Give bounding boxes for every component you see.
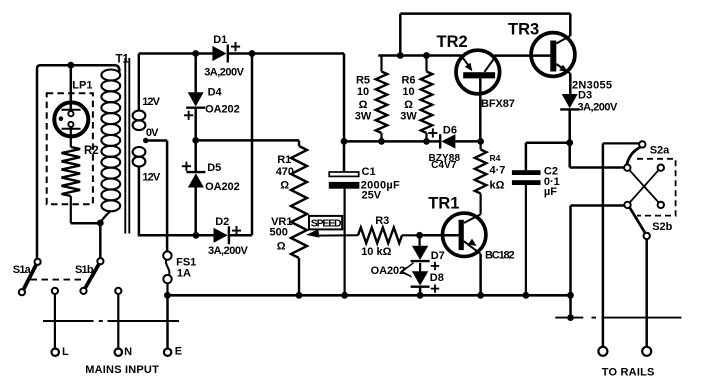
svg-text:S2b: S2b (652, 221, 672, 233)
wire: D1 cathode to C1 column (229, 52, 344, 55)
transformer T1 secondary winding with taps (133, 54, 161, 184)
svg-text:D4: D4 (208, 87, 223, 99)
wire: TR2 collector lead (479, 78, 482, 141)
svg-text:BC182: BC182 (485, 250, 515, 262)
svg-text:BFX87: BFX87 (481, 98, 515, 110)
node junction: R5 bottom (378, 138, 385, 145)
svg-text:3W: 3W (355, 111, 372, 123)
diode D3 (560, 90, 618, 114)
panel boundary line (mains side) (43, 320, 179, 322)
svg-text:D1: D1 (213, 34, 227, 46)
svg-text:D5: D5 (207, 162, 221, 174)
wire: top rail over TR2/TR3 (400, 14, 570, 56)
svg-text:S1b: S1b (75, 264, 94, 276)
svg-text:C4V7: C4V7 (431, 160, 457, 171)
svg-text:4·7: 4·7 (490, 165, 506, 177)
svg-text:Ω: Ω (404, 99, 413, 111)
VR1 wiper arrow (306, 229, 358, 238)
svg-text:10: 10 (402, 86, 414, 98)
svg-text:25V: 25V (362, 190, 382, 202)
svg-text:Ω: Ω (280, 180, 289, 192)
wire: lamp LP1 top lead (70, 65, 73, 110)
label: SPEED control box (309, 216, 342, 230)
wire: FS1 to E terminal (166, 295, 169, 348)
switch S2a (603, 141, 670, 171)
svg-text:10 kΩ: 10 kΩ (361, 246, 391, 258)
resistor R3 (358, 215, 420, 258)
svg-text:D3: D3 (578, 90, 592, 102)
node junction: lamp tap on top wire (67, 62, 74, 69)
node junction: C2 bottom on rail (523, 292, 530, 299)
svg-text:LP1: LP1 (72, 80, 92, 92)
svg-text:C1: C1 (362, 166, 376, 178)
label: TO RAILS (602, 367, 655, 379)
transistor TR3 (2N3055) (508, 20, 612, 91)
mechanical link S1a-S1b (31, 279, 85, 281)
svg-text:Ω: Ω (359, 99, 368, 111)
svg-text:kΩ: kΩ (490, 180, 505, 192)
wire: output node to S2a pole (570, 143, 625, 168)
node junction: rail end / S2b pole (567, 292, 574, 299)
terminal N riser (115, 288, 121, 348)
panel boundary line (rails side) (555, 317, 681, 319)
resistor R1 (276, 140, 307, 258)
svg-text:12V: 12V (142, 172, 160, 184)
node: 0V centre tap terminal (143, 138, 148, 143)
terminal N (115, 346, 133, 358)
svg-text:FS1: FS1 (176, 257, 196, 269)
wire: secondary bottom lead to D2 line (138, 180, 214, 235)
svg-text:µF: µF (544, 186, 557, 198)
node junction: smoothing rail tap (341, 138, 348, 145)
wire: ground return rail (167, 294, 570, 297)
wire: D4 cathode to centre node (194, 108, 197, 141)
capacitor C1 (329, 166, 400, 295)
wire: output node to C2 (526, 143, 570, 171)
dashed enclosure for S2 contacts (637, 159, 676, 216)
wire: mains L branch loop (left vertical and top horizontal) (37, 65, 119, 259)
wire: TR1 base lead (420, 234, 459, 237)
node junction: D5 anode on D2 line (193, 232, 200, 239)
label: OA202 pointer for D7/D8 (371, 263, 414, 277)
svg-text:OA202: OA202 (205, 104, 240, 116)
node junction: top-rail feed (397, 52, 404, 59)
label: MAINS INPUT (85, 364, 159, 376)
wire: loop bottom link to transformer primary junction (71, 222, 101, 225)
svg-text:R4: R4 (490, 153, 501, 163)
svg-text:TR3: TR3 (508, 20, 539, 38)
svg-text:L: L (62, 346, 69, 358)
svg-text:MAINS INPUT: MAINS INPUT (85, 364, 159, 376)
terminal: to rails left (598, 347, 607, 356)
svg-text:OA202: OA202 (371, 265, 406, 277)
node junction: stub on boundary (567, 314, 574, 321)
diode D1 (204, 34, 244, 79)
svg-text:R5: R5 (356, 75, 370, 87)
svg-text:3A,200V: 3A,200V (204, 67, 244, 79)
node junction: TR2 collector / R4 top (477, 138, 484, 145)
node junction: primary bottom / S1b / lamp loop (97, 220, 104, 227)
svg-text:OA202: OA202 (205, 181, 240, 193)
svg-text:E: E (175, 346, 182, 358)
wire: D6 anode to TR2 collector node (455, 140, 480, 143)
transistor TR2 (BFX87) (437, 33, 515, 110)
wire: S2b pole to ground rail (571, 206, 625, 296)
wire: rectifier branch down to D4 (194, 54, 197, 93)
switch S2b (624, 202, 672, 239)
svg-text:TR2: TR2 (437, 33, 468, 51)
node junction: VR1 bottom on rail (296, 292, 303, 299)
wire: D3 cathode to output node (568, 109, 571, 142)
node junction: R6 top (423, 52, 430, 59)
node junction: D1 anode / D4 branch (192, 50, 199, 57)
node junction: FS1 on rail (164, 292, 171, 299)
wire: junction to switch S1b (99, 223, 102, 258)
svg-text:R2: R2 (84, 145, 99, 157)
wire: TR3 emitter to D3 (569, 74, 572, 95)
node junction: R6 bottom (423, 138, 430, 145)
node junction: output node (D3/C2/S2a) (566, 139, 573, 146)
wire: D8 anode to ground rail (419, 288, 422, 296)
node junction: C1 bottom on rail (341, 292, 348, 299)
wire: S2b throw to rails terminal (645, 239, 648, 347)
svg-text:0V: 0V (146, 127, 159, 139)
diode D4 (184, 87, 240, 120)
diode D2 (208, 216, 248, 257)
terminal: to rails right (642, 347, 651, 356)
diode D7 (411, 235, 445, 270)
svg-text:S2a: S2a (650, 144, 670, 156)
svg-text:R6: R6 (401, 75, 415, 87)
resistor R2 (62, 129, 99, 224)
zener diode D6 (428, 125, 460, 171)
svg-text:470: 470 (276, 166, 294, 178)
svg-text:12V: 12V (142, 96, 160, 108)
wire: centre node down to D5 (194, 140, 197, 172)
capacitor C2 (512, 165, 560, 295)
wire: D5 anode down to D2 line (194, 188, 197, 236)
svg-text:D8: D8 (430, 272, 444, 284)
terminal L (52, 346, 70, 358)
svg-text:D7: D7 (431, 250, 445, 262)
wire: D1 output down to C1 (343, 54, 346, 173)
svg-text:TO RAILS: TO RAILS (602, 367, 655, 379)
svg-text:Ω: Ω (277, 241, 286, 253)
node junction: TR1 base / D7 clamp (416, 232, 423, 239)
svg-text:500: 500 (270, 227, 288, 239)
lamp LP1 (54, 80, 92, 137)
transformer T1 core (125, 58, 129, 234)
transformer T1 primary winding (101, 54, 130, 222)
resistor R5 (355, 56, 388, 142)
wire: positive rail C1 to D6 (344, 140, 440, 143)
node junction: D8 on rail (417, 292, 424, 299)
svg-text:10: 10 (357, 86, 369, 98)
svg-text:N: N (124, 346, 132, 358)
svg-text:D6: D6 (443, 125, 457, 137)
dashed enclosure around LP1 and R2 (47, 93, 93, 204)
switch S1a (13, 259, 41, 296)
diode D5 (182, 162, 240, 193)
wire: rail stub to panel boundary (569, 295, 572, 317)
wire: TR2 to TR3 base (494, 54, 550, 57)
svg-text:3A,200V: 3A,200V (578, 102, 618, 114)
svg-text:T1: T1 (116, 54, 130, 66)
svg-text:1A: 1A (177, 268, 191, 280)
svg-text:D2: D2 (215, 216, 229, 228)
diode D8 (411, 263, 444, 293)
node junction: D4/D5 centre node (192, 137, 199, 144)
wire: S2a throw to rails terminal (602, 143, 605, 347)
wire: centre node to R1 top (196, 139, 299, 142)
potentiometer VR1 (SPEED) (270, 216, 300, 295)
switch S1b (75, 258, 104, 294)
svg-text:R3: R3 (375, 215, 389, 227)
terminal L riser (52, 288, 58, 348)
svg-text:3A,200V: 3A,200V (208, 245, 248, 257)
svg-text:R1: R1 (277, 154, 291, 166)
fuse FS1 (1A) (163, 251, 196, 295)
resistor R6 (400, 56, 432, 142)
terminal E (164, 346, 182, 358)
resistor R4 (475, 141, 506, 214)
transistor TR1 (BC182) (428, 194, 514, 261)
wire: secondary top to D1 anode (139, 52, 213, 55)
wire: 0V tap to FS1 column (148, 141, 167, 252)
svg-text:3W: 3W (400, 111, 417, 123)
node junction: TR1 emitter on rail (477, 292, 484, 299)
svg-text:SPEED: SPEED (311, 217, 342, 229)
switch contacts cross-connection (630, 165, 665, 209)
wire: emitter rail R5/R6 to TR2 (378, 54, 461, 57)
svg-text:S1a: S1a (13, 264, 32, 276)
node junction: D1/D2 cathodes join (249, 50, 256, 57)
wire: D2 cathode riser to D1 output (230, 54, 252, 236)
svg-text:TR1: TR1 (428, 194, 459, 212)
wire: TR1 emitter to ground rail (479, 254, 482, 295)
